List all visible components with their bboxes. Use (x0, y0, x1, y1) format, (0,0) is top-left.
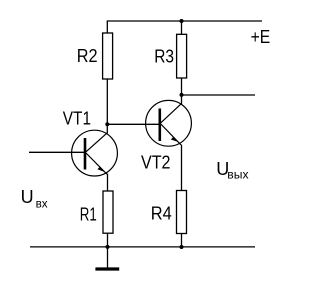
svg-text:R2: R2 (77, 46, 98, 66)
svg-text:R3: R3 (154, 47, 174, 67)
wire VT2 emitter to R4 (181, 145, 183, 191)
wire VT1 emitter to R1 (107, 174, 109, 192)
wire VT1 base input (29, 151, 85, 153)
node R4 bottom junction dot (180, 245, 184, 249)
wire top rail +E (107, 20, 262, 22)
transistor Q2 VT2 (146, 100, 192, 146)
svg-text:вых: вых (227, 167, 248, 181)
wire node A to VT2 base (107, 123, 159, 125)
transistor Q1 VT1 (72, 130, 118, 176)
wire R4 bottom lead (181, 234, 183, 247)
resistor R2 (103, 33, 113, 79)
ground (107, 247, 109, 268)
node output junction dot (180, 93, 184, 97)
resistor R3 (177, 34, 187, 78)
wire bottom rail (30, 246, 255, 248)
wire R3 top lead (181, 21, 183, 34)
svg-text:U: U (21, 187, 34, 207)
node top rail junction dot (180, 19, 184, 23)
wire output at VT2 collector (182, 94, 256, 96)
svg-text:R1: R1 (80, 204, 97, 224)
wire R2 top lead (106, 21, 108, 33)
svg-text:VT2: VT2 (141, 152, 171, 172)
svg-text:VT1: VT1 (63, 108, 91, 128)
resistor R4 (177, 191, 187, 234)
node A junction dot (105, 122, 109, 126)
node ground junction dot (106, 245, 110, 249)
svg-text:+E: +E (251, 27, 271, 47)
wire R2 bottom to VT1 collector (106, 79, 108, 133)
resistor R1 (103, 191, 113, 233)
svg-text:R4: R4 (151, 204, 172, 224)
wire R3 bottom to VT2 collector (181, 78, 183, 104)
wire R1 bottom lead (107, 233, 109, 247)
svg-text:вх: вх (36, 197, 48, 211)
